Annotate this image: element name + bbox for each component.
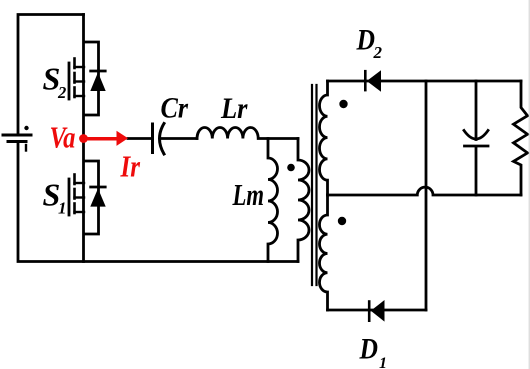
svg-text:Ir: Ir — [120, 149, 141, 184]
svg-text:D: D — [356, 24, 375, 57]
svg-text:Cr: Cr — [161, 92, 189, 125]
svg-text:Lr: Lr — [220, 92, 248, 125]
svg-text:Va: Va — [50, 120, 76, 155]
svg-text:1: 1 — [379, 355, 387, 369]
svg-text:2: 2 — [57, 83, 66, 102]
svg-text:2: 2 — [373, 43, 383, 62]
svg-text:1: 1 — [58, 199, 67, 218]
svg-text:Lm: Lm — [232, 177, 264, 212]
svg-text:D: D — [359, 333, 378, 366]
